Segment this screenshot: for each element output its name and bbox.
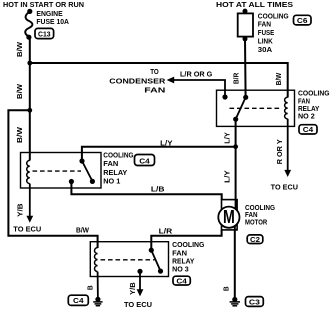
dashed actuator link relay2 <box>230 107 283 109</box>
svg-text:CONDENSER: CONDENSER <box>109 78 165 85</box>
switch arm relay3 <box>151 250 160 271</box>
svg-text:C13: C13 <box>38 31 51 38</box>
wire R OR Y to ECU with arrow <box>287 119 289 172</box>
svg-text:C4: C4 <box>176 278 187 285</box>
wire L/R OR G arrow to condenser fan <box>170 80 226 97</box>
node relay3 arm tip <box>158 269 163 274</box>
svg-text:B/W: B/W <box>17 42 24 57</box>
svg-text:NO 2: NO 2 <box>298 114 315 121</box>
svg-text:HOT AT ALL TIMES: HOT AT ALL TIMES <box>216 2 293 9</box>
svg-text:FAN: FAN <box>103 161 118 168</box>
connector C4 relay2 <box>299 125 317 134</box>
coil relay3 <box>95 248 98 272</box>
svg-text:B/W: B/W <box>76 227 89 234</box>
svg-text:RELAY: RELAY <box>298 106 320 113</box>
svg-text:FAN: FAN <box>144 88 165 95</box>
wire L/B relay1 to motor <box>71 182 221 200</box>
svg-text:R OR Y: R OR Y <box>277 139 284 164</box>
wire L/Y horizontal to relay 1 <box>82 147 236 161</box>
wire B relay3 coil to ground <box>97 272 99 300</box>
svg-text:FUSE 10A: FUSE 10A <box>36 19 69 26</box>
connector C3 <box>246 297 264 307</box>
svg-text:LINK: LINK <box>258 39 273 46</box>
node relay3 pin Y/B <box>137 269 142 274</box>
coil relay1 <box>27 160 30 183</box>
svg-text:C4: C4 <box>73 298 84 305</box>
svg-text:B/R: B/R <box>234 73 241 85</box>
relay K3 box COOLING FAN RELAY NO 3 <box>90 242 168 277</box>
svg-text:L/R: L/R <box>159 228 173 235</box>
node relay2 pin left <box>222 94 227 99</box>
relay K2 box COOLING FAN RELAY NO 2 <box>217 90 295 126</box>
node junction to left rail <box>27 108 32 113</box>
svg-text:L/R OR G: L/R OR G <box>180 71 213 78</box>
svg-text:TO ECU: TO ECU <box>13 226 41 233</box>
coil relay2 <box>285 97 288 119</box>
svg-text:TO: TO <box>150 69 159 76</box>
svg-text:B/W: B/W <box>17 127 24 143</box>
wire B/W main left vertical <box>29 37 31 160</box>
switch arm relay2 <box>236 97 246 119</box>
svg-text:L/Y: L/Y <box>225 170 232 183</box>
svg-text:FAN: FAN <box>258 22 271 29</box>
node relay2 pin B/R <box>243 95 248 100</box>
ground G1 <box>93 297 102 306</box>
svg-text:NO 1: NO 1 <box>103 178 120 185</box>
wire L/Y relay2 out down to motor <box>235 119 237 217</box>
wire L/R motor to relay 3 switch <box>151 230 221 250</box>
svg-text:MOTOR: MOTOR <box>245 219 267 226</box>
svg-text:30A: 30A <box>258 47 272 54</box>
svg-text:COOLING: COOLING <box>172 242 205 249</box>
wire B motor lead <box>234 217 236 300</box>
node relay1 arm tip <box>90 179 95 184</box>
wire Y/B relay1 coil to ECU with arrow <box>29 184 31 218</box>
motor M1 COOLING FAN MOTOR <box>222 200 238 230</box>
connector C13 <box>35 28 54 38</box>
svg-text:C6: C6 <box>297 18 308 25</box>
svg-text:C4: C4 <box>303 127 314 134</box>
svg-text:TO ECU: TO ECU <box>124 302 152 309</box>
svg-text:C3: C3 <box>249 299 260 306</box>
dashed actuator link relay1 <box>33 170 82 172</box>
svg-text:B/W: B/W <box>276 72 283 85</box>
svg-text:FAN: FAN <box>172 250 187 257</box>
svg-text:L/B: L/B <box>151 186 165 193</box>
node relay2 pin out <box>233 117 238 122</box>
wire Y/B relay3 to ECU with arrow <box>139 271 141 291</box>
svg-text:COOLING: COOLING <box>298 91 330 98</box>
connector C2 <box>247 235 263 244</box>
wire left rail down to relay 3 coil <box>8 110 97 248</box>
svg-text:Y/B: Y/B <box>130 282 137 295</box>
svg-text:L/Y: L/Y <box>225 132 232 144</box>
connector C4 relay1 <box>135 155 155 166</box>
connector C4 ground <box>68 295 88 305</box>
svg-text:FAN: FAN <box>245 212 258 219</box>
wire top horizontal to relay 2 coil <box>30 63 288 98</box>
relay K1 box COOLING FAN RELAY NO 1 <box>21 153 102 189</box>
svg-text:L/Y: L/Y <box>160 140 173 147</box>
svg-text:RELAY: RELAY <box>103 170 127 177</box>
svg-text:RELAY: RELAY <box>172 258 195 265</box>
svg-text:NO 3: NO 3 <box>172 267 189 274</box>
svg-text:B: B <box>224 286 231 291</box>
node junction at top rail <box>27 61 32 66</box>
svg-text:M: M <box>223 207 235 227</box>
svg-text:TO ECU: TO ECU <box>271 185 298 192</box>
switch arm relay1 <box>82 161 92 181</box>
wire B/R fuse link to relay 2 <box>244 39 247 98</box>
svg-text:Y/B: Y/B <box>17 204 24 217</box>
fusible link COOLING FAN FUSE LINK 30A <box>243 9 248 14</box>
svg-text:B: B <box>87 285 94 290</box>
svg-text:COOLING: COOLING <box>245 205 276 212</box>
node relay1 pin top <box>79 158 84 163</box>
connector C6 <box>294 15 312 25</box>
svg-text:C2: C2 <box>250 237 260 244</box>
node relay1 pin L/B <box>69 179 74 184</box>
node relay3 pin top <box>149 248 154 253</box>
fuse F1 ENGINE FUSE 10A <box>25 12 32 37</box>
svg-text:COOLING: COOLING <box>103 153 134 160</box>
node L/Y tee junction <box>233 144 238 149</box>
svg-text:HOT IN START OR RUN: HOT IN START OR RUN <box>3 2 84 9</box>
ground G2 <box>230 297 240 306</box>
connector C4 relay3 <box>173 276 190 285</box>
svg-text:C4: C4 <box>139 158 150 165</box>
svg-text:FAN: FAN <box>298 98 310 105</box>
svg-text:FUSE: FUSE <box>258 30 275 37</box>
svg-text:ENGINE: ENGINE <box>36 11 63 18</box>
svg-text:B/W: B/W <box>17 84 24 99</box>
dashed actuator link relay3 <box>101 259 155 261</box>
svg-text:COOLING: COOLING <box>258 13 289 20</box>
